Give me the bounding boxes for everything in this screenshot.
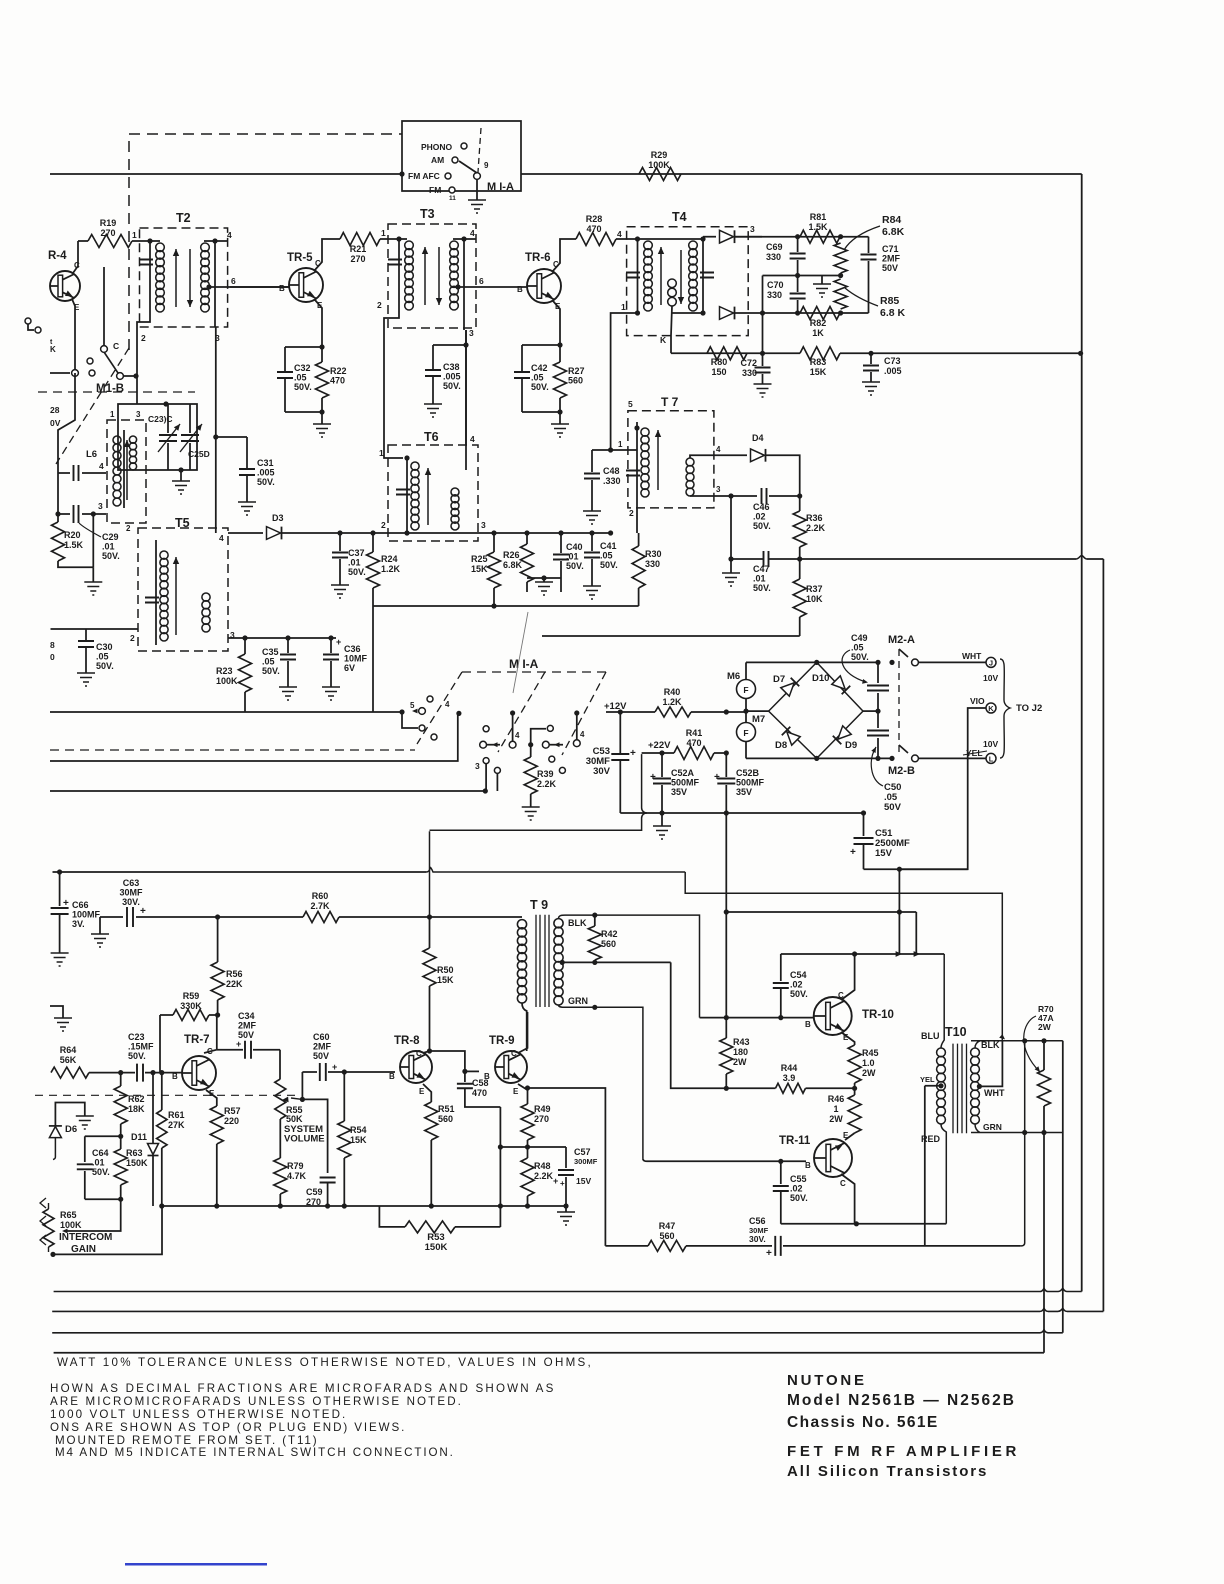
svg-text:470: 470 <box>330 376 345 386</box>
svg-text:2MF: 2MF <box>882 254 901 264</box>
resistor R37 <box>799 559 801 579</box>
svg-text:56K: 56K <box>60 1055 77 1065</box>
wire C32 R22 bottom <box>285 411 322 413</box>
svg-text:470: 470 <box>686 738 701 748</box>
node TR-10 collector <box>852 951 857 956</box>
capacitor C53 electrolytic <box>619 712 621 753</box>
diode D10 <box>832 676 845 689</box>
wire x1062 column <box>1062 1041 1064 1133</box>
contact TR-4 emitter at M1-B <box>72 370 79 377</box>
svg-text:R50: R50 <box>437 965 454 975</box>
wire bridge top line <box>746 661 878 663</box>
resistor R24 <box>372 533 374 552</box>
svg-text:50K: 50K <box>286 1114 303 1124</box>
inductor T6 secondary <box>451 488 459 496</box>
svg-text:50V.: 50V. <box>262 666 280 676</box>
svg-text:R80: R80 <box>711 357 728 367</box>
svg-text:R19: R19 <box>100 218 117 228</box>
svg-text:4.7K: 4.7K <box>287 1171 307 1181</box>
capacitor C66 electrolytic <box>59 872 61 906</box>
svg-text:.02: .02 <box>790 980 803 990</box>
wire C72 junction column <box>762 276 764 354</box>
wire dashed section divider left <box>38 391 195 393</box>
svg-text:4: 4 <box>515 731 520 740</box>
svg-text:C23: C23 <box>128 1032 145 1042</box>
svg-text:C: C <box>511 1049 517 1058</box>
diode D8 <box>787 732 800 745</box>
node C55 top <box>778 1159 783 1164</box>
svg-text:R21: R21 <box>350 244 367 254</box>
svg-text:+: + <box>140 906 146 917</box>
wire T3 primary top <box>397 238 407 240</box>
svg-text:35V: 35V <box>736 787 752 797</box>
capacitor T7 primary tuning <box>626 471 640 476</box>
svg-text:50V.: 50V. <box>92 1167 110 1177</box>
node R43 top <box>724 1015 729 1020</box>
svg-text:1K: 1K <box>812 328 824 338</box>
svg-text:.15MF: .15MF <box>128 1042 154 1052</box>
svg-text:ONS ARE SHOWN AS TOP (OR: ONS ARE SHOWN AS TOP (OR PLUG END) VIEWS… <box>50 1421 406 1434</box>
svg-text:AM: AM <box>431 155 444 165</box>
svg-text:HOWN AS DECIMAL FRACTIONS: HOWN AS DECIMAL FRACTIONS ARE MICROFARAD… <box>50 1382 556 1395</box>
svg-text:3: 3 <box>475 761 480 771</box>
resistor R82 <box>800 307 840 320</box>
svg-text:50V.: 50V. <box>257 477 275 487</box>
wire varcap box bottom to ground <box>178 467 183 472</box>
svg-text:Model N2561B — N2562B: Model N2561B — N2562B <box>787 1392 1016 1409</box>
svg-text:330: 330 <box>645 559 660 569</box>
wire TR-5 emitter to C32/R22 <box>315 300 322 347</box>
svg-text:1.2K: 1.2K <box>662 697 682 707</box>
wire T2 pin2 bottom <box>137 314 150 404</box>
diode D7 <box>781 683 794 696</box>
svg-text:470: 470 <box>472 1088 487 1098</box>
wire C55 bottom to TR-11 collector <box>781 1223 857 1225</box>
capacitor C51 electrolytic <box>854 838 874 844</box>
svg-text:6: 6 <box>231 276 236 286</box>
transistor TR-5 <box>289 268 323 302</box>
svg-text:All Silicon Transistors: All Silicon Transistors <box>787 1463 988 1480</box>
wire R28 to T4 <box>616 238 638 240</box>
inductor T2 primary <box>149 241 151 314</box>
inductor T9 primary <box>517 920 526 929</box>
wire C63 line <box>100 916 123 918</box>
capacitor box C23C C25D <box>118 404 197 470</box>
node R62 top <box>118 1070 123 1075</box>
svg-text:C30: C30 <box>96 642 113 652</box>
svg-text:M2-B: M2-B <box>888 765 915 777</box>
svg-text:270: 270 <box>350 254 365 264</box>
svg-text:500MF: 500MF <box>671 778 700 788</box>
diode D1 <box>720 230 734 243</box>
svg-text:.05: .05 <box>851 643 864 653</box>
node C73 <box>868 351 873 356</box>
svg-text:M4 AND M5 INDICATE INTERNA: M4 AND M5 INDICATE INTERNAL SWITCH CONNE… <box>55 1446 455 1459</box>
wire R21 to T3 pin 1 <box>380 238 397 240</box>
resistor R42 <box>594 915 596 926</box>
wire T2 pin3 column down to T5 <box>215 327 217 533</box>
capacitor C36 <box>328 635 333 640</box>
svg-text:+: + <box>714 772 720 783</box>
svg-text:BLK: BLK <box>981 1040 1000 1050</box>
ground at C52A <box>661 813 663 826</box>
svg-text:0V: 0V <box>50 418 61 428</box>
resistor R28 <box>576 233 616 246</box>
svg-text:C48: C48 <box>603 466 620 476</box>
wire bottom line L4 <box>54 1352 1044 1354</box>
wire dashed M1-A wiper 3 <box>562 672 606 755</box>
svg-text:R46: R46 <box>828 1094 845 1104</box>
capacitor C60 <box>302 1071 317 1073</box>
resistor R46 <box>854 1088 856 1095</box>
wire +22V line <box>642 752 674 754</box>
inductor T4 primary <box>637 239 639 313</box>
svg-text:R84: R84 <box>882 214 901 226</box>
wire T5 pin3 to R23 C35 C36 <box>228 637 336 639</box>
svg-text:C40: C40 <box>566 542 583 552</box>
node R83 line to right bus <box>1078 351 1083 356</box>
inductor T3 primary <box>398 239 400 312</box>
svg-text:+: + <box>332 1062 337 1072</box>
svg-text:22K: 22K <box>226 979 243 989</box>
wire M2-B to jack L <box>918 757 986 759</box>
node T4 secondary bottom <box>700 310 705 315</box>
resistor R64 <box>51 1067 89 1078</box>
resistor R61 <box>161 1073 163 1110</box>
wire T10 secondary BLK lead <box>971 1041 1063 1048</box>
wire T5 pin4 to D3 <box>228 532 263 534</box>
svg-text:.01: .01 <box>348 558 361 568</box>
wire v1 column down <box>898 869 900 954</box>
capacitor C55 <box>780 1161 782 1184</box>
wire audio feed line y893 <box>685 872 1002 1041</box>
wire +12V line <box>606 711 655 713</box>
wire T2 primary top <box>150 240 160 242</box>
wire T3 secondary tap pin6 to TR-6 base <box>455 284 460 289</box>
resistor R27 <box>559 345 561 362</box>
svg-text:.330: .330 <box>603 476 621 486</box>
resistor R83 <box>800 347 840 360</box>
transformer T6 enclosure <box>388 445 478 541</box>
svg-text:R-4: R-4 <box>48 250 67 262</box>
svg-text:2W: 2W <box>829 1114 843 1124</box>
svg-text:C54: C54 <box>790 970 807 980</box>
jack J <box>986 657 996 667</box>
svg-text:2: 2 <box>130 633 135 643</box>
svg-text:220: 220 <box>224 1116 239 1126</box>
capacitor C73 <box>870 353 872 364</box>
ground detector middle <box>821 276 823 285</box>
svg-text:2: 2 <box>629 508 634 518</box>
wire T3 pin3 down to T6 pin4 <box>464 312 466 445</box>
svg-text:4: 4 <box>470 228 475 238</box>
transistor TR-8 <box>400 1051 432 1083</box>
node T4 secondary top <box>700 236 705 241</box>
svg-text:R23: R23 <box>216 666 233 676</box>
resistor R63 <box>120 1136 122 1149</box>
svg-text:3: 3 <box>481 520 486 530</box>
svg-text:R24: R24 <box>381 554 398 564</box>
svg-text:.01: .01 <box>753 574 766 584</box>
ground at M1-A box <box>476 180 478 200</box>
wire +22V feed to audio (x641 column) <box>430 754 648 917</box>
wire R47 C56 line <box>605 1245 648 1247</box>
wire R44 line <box>726 1087 775 1089</box>
node C72 <box>760 351 765 356</box>
node TR-5 emitter bias <box>319 344 324 349</box>
svg-text:+12V: +12V <box>604 701 627 712</box>
resistor R41 <box>674 747 714 760</box>
svg-text:1.5K: 1.5K <box>64 540 84 550</box>
node R24 junction <box>370 530 375 535</box>
arrow T2 primary <box>175 249 177 307</box>
capacitor C38 <box>432 345 434 370</box>
transformer T2 enclosure <box>140 228 228 327</box>
svg-text:R45: R45 <box>862 1048 879 1058</box>
svg-text:15V: 15V <box>576 1176 591 1186</box>
svg-text:470: 470 <box>586 224 601 234</box>
wire x1024 column to C56 line <box>1020 1041 1025 1246</box>
arrow L6 <box>126 440 128 500</box>
svg-text:C49: C49 <box>851 633 868 643</box>
svg-text:C42: C42 <box>531 363 548 373</box>
inductor T4 tertiary <box>668 279 677 288</box>
svg-text:1.5K: 1.5K <box>808 222 828 232</box>
capacitor C54 <box>780 954 782 981</box>
wire audio ground bus <box>162 1205 566 1207</box>
node TR-8 collector <box>427 1048 432 1053</box>
svg-text:30V.: 30V. <box>749 1234 766 1244</box>
svg-text:+22V: +22V <box>648 740 671 751</box>
wire R63 bottom to intercom pot wiper <box>66 1199 121 1231</box>
capacitor C23 <box>137 1064 143 1082</box>
wire C46 to R36 <box>769 495 800 497</box>
wire T9 center tap line <box>560 960 565 965</box>
svg-text:1: 1 <box>379 448 384 458</box>
ground below C38 <box>424 404 442 417</box>
svg-text:E: E <box>513 1087 519 1096</box>
inductor T7 primary <box>636 422 638 497</box>
svg-text:2W: 2W <box>1038 1022 1052 1032</box>
svg-text:F: F <box>743 685 748 695</box>
wire TR-11 collector line to T10 RED <box>856 1223 946 1225</box>
wire TR-9 base line <box>465 1070 479 1072</box>
wire C57 branch <box>500 1146 566 1148</box>
capacitor C52B electrolytic <box>725 753 727 777</box>
svg-text:J: J <box>989 659 993 668</box>
arrow T2 secondary <box>189 249 191 307</box>
wire T7 pin2 down <box>636 497 638 533</box>
svg-text:B: B <box>279 284 285 293</box>
resistor R48 <box>527 1147 529 1158</box>
ground below R26 C40 <box>543 578 545 582</box>
svg-text:270: 270 <box>100 228 115 238</box>
wire R44 to R45 node <box>806 1087 855 1089</box>
transistor TR-9 <box>495 1051 527 1083</box>
svg-text:1000 VOLT UNLESS OTHERWISE: 1000 VOLT UNLESS OTHERWISE NOTED. <box>50 1408 347 1421</box>
svg-text:C52B: C52B <box>736 768 760 778</box>
capacitor C64 <box>84 1136 86 1162</box>
wire TR-10 emitter to R45 <box>841 1032 855 1045</box>
node varcap box top <box>163 401 168 406</box>
svg-text:1: 1 <box>132 230 137 240</box>
svg-text:.005: .005 <box>257 468 275 478</box>
wire R64 to C23 <box>89 1072 135 1074</box>
wire T7 pin4 to D4 <box>690 455 747 458</box>
node C29 top <box>55 511 60 516</box>
svg-text:D6: D6 <box>65 1124 77 1135</box>
wire T2 secondary tap pin 6 to TR-5 base <box>206 284 211 289</box>
svg-text:NUTONE: NUTONE <box>787 1372 867 1389</box>
node C54 bottom <box>778 1015 783 1020</box>
node T7 pin2 junction <box>608 530 613 535</box>
svg-text:560: 560 <box>568 376 583 386</box>
svg-text:R63: R63 <box>126 1148 143 1158</box>
svg-text:C60: C60 <box>313 1032 330 1042</box>
svg-text:2.2K: 2.2K <box>806 523 826 533</box>
svg-text:TR-10: TR-10 <box>862 1009 894 1021</box>
lamp M6 <box>737 680 756 699</box>
svg-text:GRN: GRN <box>983 1122 1002 1132</box>
svg-text:50V.: 50V. <box>531 382 549 392</box>
inductor T9 secondary <box>554 919 563 928</box>
wire dashed remote volume link <box>35 1094 295 1096</box>
switch M1-A pole C <box>574 710 579 715</box>
resistor R49 <box>521 1104 534 1140</box>
potentiometer R65 <box>43 1209 54 1247</box>
node R25 junction <box>491 530 496 535</box>
svg-text:D8: D8 <box>775 740 787 751</box>
wire dashed M1-A wiper 2 <box>498 672 545 752</box>
wire detector middle line <box>763 275 841 277</box>
svg-text:18K: 18K <box>128 1104 145 1114</box>
svg-text:30V.: 30V. <box>122 897 140 907</box>
variable capacitor C25D <box>181 435 199 441</box>
svg-text:R43: R43 <box>733 1037 750 1047</box>
svg-text:PHONO: PHONO <box>421 142 453 152</box>
svg-text:2W: 2W <box>862 1068 876 1078</box>
svg-text:50V.: 50V. <box>96 661 114 671</box>
svg-text:C34: C34 <box>238 1011 255 1021</box>
wire TR-8 collector link <box>423 1051 465 1071</box>
svg-text:R30: R30 <box>645 549 662 559</box>
capacitor C49 <box>877 662 879 683</box>
ground below C37 <box>331 585 349 598</box>
wire C58 bottom to R48 node <box>465 1088 501 1227</box>
svg-text:C66: C66 <box>72 900 89 910</box>
svg-text:+: + <box>766 1248 772 1259</box>
svg-text:R40: R40 <box>664 687 681 697</box>
svg-text:C36: C36 <box>344 644 361 654</box>
wire TR-9 emitter node <box>518 1084 528 1104</box>
svg-text:R82: R82 <box>810 318 827 328</box>
svg-text:T2: T2 <box>176 211 191 225</box>
wire C42 R27 top <box>522 344 560 346</box>
wire dashed M1-A band top <box>462 671 606 673</box>
wire TR-10 collector <box>841 954 855 1000</box>
svg-text:3.9: 3.9 <box>783 1073 796 1083</box>
svg-text:+: + <box>553 1176 558 1186</box>
wire x1062 down to L3 <box>1062 1133 1064 1333</box>
wire bus line B3 <box>50 790 485 792</box>
svg-text:L: L <box>989 755 994 764</box>
diode D9 <box>838 726 851 739</box>
svg-text:6.8K: 6.8K <box>882 226 905 238</box>
node C47 left <box>728 556 733 561</box>
svg-text:560: 560 <box>601 939 616 949</box>
node T2 primary top <box>147 238 152 243</box>
wire C56 to YEL column <box>783 1245 1020 1247</box>
capacitor C29 (series, lower) <box>58 513 70 515</box>
inductor T10 secondary <box>971 1048 980 1057</box>
capacitor C48 <box>592 449 611 451</box>
potentiometer R55 SYSTEM VOLUME <box>275 1079 286 1119</box>
capacitor C30 <box>85 629 87 640</box>
svg-text:4: 4 <box>219 533 224 543</box>
svg-text:K: K <box>50 345 56 354</box>
svg-text:C52A: C52A <box>671 768 695 778</box>
svg-text:R61: R61 <box>168 1110 185 1120</box>
svg-text:3: 3 <box>716 485 721 494</box>
transistor TR-11 <box>814 1139 852 1177</box>
svg-text:50V.: 50V. <box>753 521 771 531</box>
inductor L6 secondary winding <box>129 436 136 443</box>
svg-text:2MF: 2MF <box>238 1021 257 1031</box>
capacitor T3 primary tuning <box>388 260 402 265</box>
capacitor C58 <box>464 1071 466 1082</box>
wire bridge left column <box>745 662 747 758</box>
svg-text:R28: R28 <box>586 214 603 224</box>
svg-text:WATT 10% TOLERANCE UNLESS: WATT 10% TOLERANCE UNLESS OTHERWISE NOTE… <box>57 1356 593 1369</box>
wire R37 bottom line y636 <box>542 635 800 637</box>
diode D4 <box>751 449 765 462</box>
svg-text:C64: C64 <box>92 1148 109 1158</box>
wire supply rail x726 down <box>725 813 727 1018</box>
inductor L6 enclosure <box>107 420 146 523</box>
svg-text:50V.: 50V. <box>851 652 869 662</box>
diode D6 with stub <box>55 1103 84 1126</box>
svg-text:4: 4 <box>99 461 104 471</box>
svg-text:4: 4 <box>580 730 585 739</box>
wire T10 WHT tap <box>977 1084 982 1089</box>
svg-text:C72: C72 <box>740 358 757 368</box>
svg-text:R59: R59 <box>183 991 200 1001</box>
svg-text:FET FM RF AMPLIFIER: FET FM RF AMPLIFIER <box>787 1443 1020 1460</box>
svg-text:B: B <box>805 1020 811 1029</box>
capacitor C41 <box>589 530 594 535</box>
svg-text:1: 1 <box>381 228 386 238</box>
svg-text:C: C <box>207 1047 213 1056</box>
svg-text:R65: R65 <box>60 1210 77 1220</box>
wire ground bus y813 <box>620 812 863 814</box>
svg-text:+: + <box>63 898 69 909</box>
connector arrows R65 terminals <box>40 1198 46 1208</box>
arrow T7 primary <box>657 430 659 490</box>
wire R46 to TR-11 emitter <box>845 1133 855 1140</box>
wire C60 node to TR-8 base <box>344 1071 395 1073</box>
svg-text:15V: 15V <box>875 848 893 859</box>
resistor R51 <box>423 1084 431 1102</box>
wire C32 R22 top <box>285 346 322 348</box>
wire jack K to C51 bottom <box>899 708 986 869</box>
resistor R36 <box>799 488 801 511</box>
svg-text:.05: .05 <box>294 373 307 383</box>
transformer T7 enclosure <box>628 411 714 508</box>
svg-text:+: + <box>630 748 636 759</box>
inductor L6 winding <box>123 430 125 508</box>
resistor R62 <box>120 1073 122 1086</box>
svg-text:T 9: T 9 <box>530 898 548 912</box>
